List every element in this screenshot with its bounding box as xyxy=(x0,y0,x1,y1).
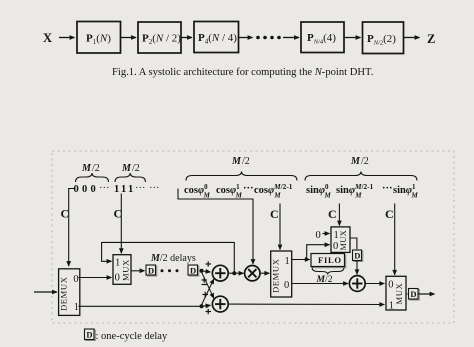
svg-text:0: 0 xyxy=(316,230,321,241)
node after upper adder xyxy=(232,271,236,275)
wire bottom bus to lower adder xyxy=(202,305,211,306)
node Z xyxy=(427,32,435,46)
wire FILO loop to small MUX.0 xyxy=(307,245,330,260)
wire lower adder to output MUX.1 (bottom bus) xyxy=(228,303,384,305)
dashed boundary box xyxy=(52,151,454,323)
adder lower xyxy=(212,296,228,312)
svg-text:0: 0 xyxy=(91,184,96,195)
svg-text:Z: Z xyxy=(427,32,435,46)
delay D2 xyxy=(188,265,199,276)
control sequence 000...111... xyxy=(74,183,160,195)
svg-text:M: M xyxy=(81,163,92,174)
svg-text:···: ··· xyxy=(243,183,254,194)
svg-text:/2: /2 xyxy=(92,163,100,174)
svg-text:D: D xyxy=(148,266,154,276)
wire DEMUX1.0 to MUX1.0 xyxy=(78,277,111,279)
adder right xyxy=(349,276,365,292)
wire cross down to lower adder xyxy=(202,272,214,298)
wire X to P1 xyxy=(59,37,75,39)
svg-text:D: D xyxy=(410,289,416,299)
svg-text:C: C xyxy=(270,207,279,221)
svg-text:···: ··· xyxy=(99,183,110,194)
plus sign lower adder top xyxy=(203,292,209,297)
wire output MUX to delay D4 xyxy=(406,293,408,295)
svg-text:···: ··· xyxy=(135,183,146,194)
adder upper xyxy=(212,265,228,281)
wire C to MUX1 xyxy=(120,194,122,254)
svg-text:/2: /2 xyxy=(132,163,140,174)
label M/2 over control 111 xyxy=(121,163,140,174)
input wire to DEMUX1 xyxy=(34,291,57,293)
label C above MUX1 xyxy=(114,207,123,221)
svg-text:1: 1 xyxy=(115,258,120,269)
svg-text:MUX: MUX xyxy=(339,230,348,251)
wire PN2 to Z xyxy=(404,37,420,39)
overbrace sin xyxy=(305,172,417,181)
label PN/4(4) xyxy=(307,32,336,46)
wire C to DEMUX2 xyxy=(279,204,281,250)
label PN/2(2) xyxy=(367,33,396,47)
legend text xyxy=(96,331,168,342)
svg-text:M: M xyxy=(231,156,242,167)
wire MUX1 out to delay D1 xyxy=(131,270,145,272)
svg-text:0: 0 xyxy=(284,280,289,291)
underbrace FILO M/2 xyxy=(312,268,344,275)
label P2(N/2) xyxy=(142,33,181,47)
delay D4 xyxy=(409,289,420,301)
label C above DEMUX2 xyxy=(270,207,279,221)
svg-text:1: 1 xyxy=(121,184,126,195)
wire DEMUX2.0 to right adder xyxy=(292,283,348,285)
svg-text:1: 1 xyxy=(128,184,133,195)
svg-text:0: 0 xyxy=(82,184,87,195)
wire P1 to P2 xyxy=(121,37,137,39)
multiplier xyxy=(245,266,260,281)
label M/2 over cos xyxy=(231,156,250,167)
svg-text:D: D xyxy=(354,251,360,261)
label P4(N/4) xyxy=(198,32,237,46)
svg-text:M/2 delays: M/2 delays xyxy=(150,253,196,264)
svg-text:1: 1 xyxy=(74,302,79,313)
filo FILO xyxy=(311,254,346,268)
label M/2 delays xyxy=(150,253,196,264)
svg-text:1: 1 xyxy=(114,184,119,195)
caption Fig.1 xyxy=(112,67,373,78)
output wire xyxy=(418,293,435,295)
label P1(N) xyxy=(86,33,111,47)
plusminus sign upper adder bottom xyxy=(202,277,208,284)
svg-text:DEMUX: DEMUX xyxy=(59,276,69,311)
wire P2 to P4 xyxy=(181,37,192,39)
svg-text:D: D xyxy=(190,266,196,276)
constant 0 into small MUX.1 xyxy=(316,230,330,241)
block PN/2(2) xyxy=(363,22,404,54)
svg-text:DEMUX: DEMUX xyxy=(271,258,281,293)
svg-text:P1(N): P1(N) xyxy=(86,33,111,47)
wire cross up to upper adder xyxy=(202,279,214,305)
cos bus bracket and wire to multiplier xyxy=(178,189,253,265)
sin coefficient sequence xyxy=(306,182,419,200)
label C above output MUX xyxy=(385,207,394,221)
wire dots to PN4 xyxy=(283,37,299,39)
block P1(N) xyxy=(77,22,121,54)
block P4(N/4) xyxy=(194,22,239,53)
delay D1 xyxy=(146,265,157,276)
wire node to upper adder xyxy=(202,271,211,272)
svg-text:P4(N / 4): P4(N / 4) xyxy=(198,32,237,46)
svg-text:0: 0 xyxy=(74,184,79,195)
demux DEMUX2 xyxy=(271,251,292,297)
label M/2 over control 000 xyxy=(81,163,100,174)
svg-text:0: 0 xyxy=(73,274,78,285)
cos coefficient sequence xyxy=(184,182,293,200)
svg-text:M: M xyxy=(350,156,361,167)
wire small MUX out to delay D3 xyxy=(350,238,357,249)
svg-text:C: C xyxy=(328,207,337,221)
wire DEMUX2.1 to FILO xyxy=(292,259,310,261)
delay D3 xyxy=(353,250,363,262)
wire C to output MUX xyxy=(394,204,396,275)
overbrace 000 xyxy=(76,173,109,182)
wire D3 to right adder xyxy=(356,261,358,275)
control bus bracket to C line DEMUX1 xyxy=(69,189,76,267)
svg-text:···: ··· xyxy=(382,183,393,194)
svg-text:: one-cycle delay: : one-cycle delay xyxy=(96,331,168,342)
wire right adder to output MUX.0 xyxy=(365,283,384,285)
label M/2 under FILO xyxy=(316,274,333,285)
wire DEMUX1.1 bottom bus xyxy=(78,305,200,307)
wire PN4 to PN2 xyxy=(344,37,361,39)
ellipsis dots xyxy=(256,36,281,40)
svg-text:MUX: MUX xyxy=(121,259,131,281)
overbrace 111 xyxy=(115,173,146,182)
svg-text:/2: /2 xyxy=(361,156,369,167)
node on bottom bus xyxy=(200,304,204,308)
label C above small MUX xyxy=(328,207,337,221)
wire P4 to dots xyxy=(239,37,253,39)
svg-text:C: C xyxy=(61,207,70,221)
svg-text:1: 1 xyxy=(285,256,290,267)
svg-text:C: C xyxy=(385,207,394,221)
svg-text:FILO: FILO xyxy=(318,255,342,265)
ellipsis between delays xyxy=(161,269,179,272)
mux MUX1 xyxy=(113,255,131,285)
label C above DEMUX1 xyxy=(61,207,70,221)
svg-text:···: ··· xyxy=(149,183,160,194)
svg-text:MUX: MUX xyxy=(394,282,404,304)
svg-text:0: 0 xyxy=(115,273,120,284)
svg-text:/2: /2 xyxy=(242,156,250,167)
plus sign lower adder bottom xyxy=(206,309,212,314)
legend delay D xyxy=(85,329,96,341)
wire upper adder to multiplier xyxy=(228,272,243,274)
label M/2 over sin xyxy=(350,156,369,167)
svg-text:D: D xyxy=(86,330,92,340)
feedback wire adder node to MUX1.1 xyxy=(102,242,235,272)
wire C to small MUX xyxy=(338,204,340,226)
svg-text:0: 0 xyxy=(388,280,393,291)
block P2(N/2) xyxy=(138,22,181,53)
svg-text:0: 0 xyxy=(333,241,338,252)
svg-text:1: 1 xyxy=(334,230,339,241)
mux small MUX xyxy=(331,227,350,253)
svg-text:Fig.1. A systolic architecture: Fig.1. A systolic architecture for compu… xyxy=(112,67,373,78)
block PN/4(4) xyxy=(301,22,344,53)
overbrace cos xyxy=(186,172,297,181)
svg-text:X: X xyxy=(43,31,52,45)
plus sign upper adder top xyxy=(206,261,212,266)
node after D2 xyxy=(200,269,204,273)
wire multiplier to DEMUX2 xyxy=(260,272,269,274)
node X xyxy=(43,31,52,45)
svg-text:P2(N / 2): P2(N / 2) xyxy=(142,33,181,47)
demux DEMUX1 xyxy=(59,269,80,316)
svg-text:M: M xyxy=(121,163,132,174)
mux output MUX xyxy=(386,276,406,311)
